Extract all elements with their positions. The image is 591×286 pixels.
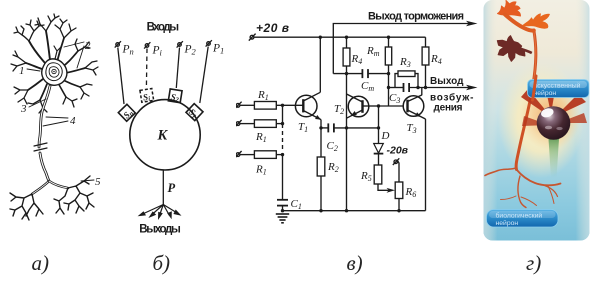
caption b) xyxy=(153,251,171,276)
svg-text:C3: C3 xyxy=(389,92,400,105)
wire -20v to R6 xyxy=(398,161,400,183)
terminal Pn xyxy=(115,41,121,47)
wire input P2 xyxy=(176,48,179,89)
wire input 3 xyxy=(240,154,255,156)
arrowhead wiper into R6 xyxy=(387,188,396,193)
svg-text:R2: R2 xyxy=(327,161,339,174)
svg-text:Pi: Pi xyxy=(152,45,163,58)
neuron dendrite branch right-up (pointed by 2) xyxy=(62,51,78,67)
input terminal 2 xyxy=(235,120,242,127)
wire output stem xyxy=(162,170,164,205)
transistor T3 xyxy=(403,95,425,119)
wire C1 to ground rail xyxy=(282,206,284,211)
wire input 2 xyxy=(240,123,255,125)
wire R4-left to bottom rail xyxy=(346,66,348,211)
wire C3 to output node xyxy=(409,87,425,89)
wire R2 branch xyxy=(320,128,322,157)
svg-text:3: 3 xyxy=(20,103,27,115)
transistor T2 xyxy=(347,94,379,118)
node R4-left Cm junction xyxy=(345,72,348,75)
label artificial neuron xyxy=(528,80,590,98)
output arrow fan xyxy=(138,205,182,221)
capacitor C3 xyxy=(404,83,410,92)
wire T3 collector xyxy=(421,88,423,96)
maroon connection to stem xyxy=(518,48,532,53)
node Rm on rail xyxy=(387,36,390,39)
wire Cm line xyxy=(333,73,362,75)
capacitor Cm xyxy=(362,69,368,78)
node R2 rail xyxy=(319,209,322,212)
sphere highlight xyxy=(540,107,555,119)
svg-text:T1: T1 xyxy=(298,121,308,134)
maroon star leaf xyxy=(497,36,524,61)
red rays behind sphere xyxy=(521,84,587,126)
svg-text:Выходы: Выходы xyxy=(139,224,181,236)
terminal P1 xyxy=(206,40,212,46)
wire T2 base to T3 base xyxy=(379,105,404,107)
wire R1 top to node xyxy=(276,104,283,106)
axon break marks xyxy=(34,143,47,151)
caption a) xyxy=(32,251,50,276)
resistor R4 right xyxy=(422,47,429,65)
box Si (dashed) xyxy=(140,89,154,104)
svg-text:Выход торможения: Выход торможения xyxy=(368,11,464,23)
sphere lower reflections xyxy=(545,126,552,130)
summing circle K xyxy=(130,100,200,170)
pointer lines for 4 xyxy=(43,117,68,126)
node R6 rail xyxy=(397,209,400,212)
stem segment crossing the label xyxy=(533,76,537,100)
wire Rm leads xyxy=(388,37,390,47)
svg-text:P: P xyxy=(168,181,176,195)
neuron dendrite branch up-right xyxy=(57,38,64,62)
resistor R6 xyxy=(395,182,403,199)
node T2 base / diode top xyxy=(377,104,380,107)
svg-text:Входы: Входы xyxy=(147,22,180,34)
node C3 wire left xyxy=(387,86,390,89)
axon terminal fork xyxy=(32,181,49,194)
neuron dendrite branch down-left xyxy=(40,84,47,100)
node rail x346 xyxy=(345,209,348,212)
axon lower part (double line) xyxy=(40,153,49,181)
node input 3 junction xyxy=(281,153,284,156)
arrowhead excitation output xyxy=(466,85,478,91)
orange bird shape xyxy=(523,14,550,29)
label biological neuron xyxy=(487,210,559,228)
neuron soma inner scribbles xyxy=(46,63,62,81)
artificial neuron sphere xyxy=(537,106,571,140)
capacitor C2 xyxy=(328,123,334,132)
terminal P2 xyxy=(177,41,183,47)
ground xyxy=(276,214,289,223)
box S1 xyxy=(185,104,203,122)
neuron dendrite branch left xyxy=(26,63,42,69)
neuron dendrite branch right-down xyxy=(63,80,80,87)
wire input 1 xyxy=(240,104,255,106)
wire R4 right leads xyxy=(425,37,427,47)
svg-text:C2: C2 xyxy=(327,140,338,153)
input terminal 3 xyxy=(235,151,242,158)
warm glow around sphere xyxy=(498,62,584,178)
wire left long vertical R4 branch xyxy=(346,37,348,48)
transistor T1 xyxy=(295,92,321,119)
resistor R1 (middle) xyxy=(254,120,276,128)
resistor R1 (bottom) xyxy=(254,151,276,159)
svg-text:K: K xyxy=(157,128,169,144)
neuron dendrite branch right xyxy=(65,68,85,73)
wire R5 to R6 wiper arrow xyxy=(378,184,389,190)
node input 1 junction xyxy=(281,104,284,107)
axon hillock and axon (double line) xyxy=(39,86,50,147)
caption g) xyxy=(526,251,541,276)
svg-text:1: 1 xyxy=(19,65,25,77)
wire input bus to C1 xyxy=(282,155,284,200)
box S2 xyxy=(168,89,182,104)
wire +20v rail xyxy=(255,36,426,38)
terminal +20v input xyxy=(249,34,256,41)
wire diode to R5 xyxy=(378,154,380,165)
wire C3 line xyxy=(389,87,404,89)
wire R1 bottom to node xyxy=(276,154,282,156)
svg-text:P1: P1 xyxy=(212,43,224,56)
pointer lines for 2 xyxy=(64,42,84,68)
svg-text:C1: C1 xyxy=(291,198,302,211)
svg-text:+20 в: +20 в xyxy=(256,21,289,35)
neuron nucleus xyxy=(52,69,56,73)
node ground rail left xyxy=(281,209,284,212)
wire R6 to rail xyxy=(398,199,400,211)
svg-text:5: 5 xyxy=(95,176,101,188)
terminal arborization right xyxy=(54,176,94,214)
resistor R2 xyxy=(317,157,325,176)
svg-text:P2: P2 xyxy=(184,44,197,57)
wire C2 to diode node xyxy=(334,127,379,129)
wire T1 emitter down xyxy=(320,120,322,128)
resistor R1 (top) xyxy=(254,102,276,110)
neuron soma outline xyxy=(42,59,67,85)
svg-text:R1: R1 xyxy=(255,131,267,144)
svg-text:R6: R6 xyxy=(405,186,417,199)
svg-text:дения: дения xyxy=(434,103,463,114)
svg-text:искусственный: искусственный xyxy=(534,82,581,90)
node input 2 junction xyxy=(281,122,284,125)
svg-text:R4: R4 xyxy=(430,53,442,66)
wire to C2 xyxy=(321,127,328,129)
pointer line for 3 xyxy=(29,99,46,107)
svg-text:Cm: Cm xyxy=(361,80,374,93)
wire inhibition output line xyxy=(333,24,468,74)
svg-text:D: D xyxy=(381,130,390,142)
svg-text:нейрон: нейрон xyxy=(534,89,557,97)
svg-text:Rm: Rm xyxy=(366,45,380,58)
node C2 wire at diode xyxy=(377,126,380,129)
pointer line for 1 xyxy=(27,69,40,71)
wire T3 emitter to rail xyxy=(425,119,427,211)
resistor R5 xyxy=(374,165,382,184)
wire input Pi (dashed) xyxy=(145,49,148,88)
svg-text:4: 4 xyxy=(70,115,76,127)
svg-text:R1: R1 xyxy=(257,89,269,102)
resistor R4 left xyxy=(343,48,350,66)
svg-text:R3: R3 xyxy=(399,56,411,69)
resistor R3 parallel loop xyxy=(395,74,398,88)
panel background xyxy=(484,0,590,241)
svg-text:R4: R4 xyxy=(351,53,363,66)
svg-text:T3: T3 xyxy=(407,122,417,135)
green ray under sphere xyxy=(548,131,560,178)
orange apical flame shape xyxy=(498,1,521,17)
node C2 wire crossing x346 xyxy=(345,126,348,129)
wire input Pn xyxy=(118,48,124,105)
wire Cm to Rm node xyxy=(368,73,389,75)
svg-text:Выход: Выход xyxy=(430,76,464,87)
wire R1 middle to node xyxy=(276,123,282,125)
wire R2 to rail xyxy=(320,176,322,211)
terminal -20v xyxy=(393,158,400,165)
svg-text:биологический: биологический xyxy=(496,212,543,220)
svg-text:T2: T2 xyxy=(334,103,344,116)
neuron dendrite branch up-left xyxy=(29,41,45,63)
node output excitation xyxy=(424,86,427,89)
svg-text:R1: R1 xyxy=(255,164,267,177)
wire T1 base xyxy=(283,104,304,106)
neuron lower branches xyxy=(485,168,561,208)
svg-text:-20в: -20в xyxy=(387,145,409,157)
small connector dendrite xyxy=(54,46,61,59)
svg-text:Pn: Pn xyxy=(122,44,134,57)
node Rm bottom on Cm wire xyxy=(387,72,390,75)
capacitor C1 xyxy=(277,200,288,206)
wire T1 collector to rail xyxy=(319,37,321,92)
diode D xyxy=(374,144,384,154)
neuron dendrite branch down-right xyxy=(58,83,66,97)
wire bottom rail xyxy=(283,210,426,212)
pointer line for 5 xyxy=(81,180,94,181)
terminal Pi xyxy=(144,42,150,48)
wire input P1 xyxy=(200,47,208,104)
svg-text:нейрон: нейрон xyxy=(496,219,519,227)
svg-text:R5: R5 xyxy=(360,170,372,183)
arrowhead inhibition output xyxy=(466,21,478,27)
flame-to-stem sweep xyxy=(505,15,534,31)
biological neuron stem xyxy=(516,30,536,170)
wire excitation output arrow xyxy=(426,87,469,89)
terminal arborization left xyxy=(10,193,43,220)
node R3 right xyxy=(416,86,419,89)
box Sn xyxy=(118,104,136,122)
wire input bus solid top xyxy=(282,105,284,128)
input terminal 1 xyxy=(235,102,242,109)
node R4-left on rail xyxy=(345,36,348,39)
wire input bus dashed (more inputs) xyxy=(282,131,284,152)
node T1 collector on rail xyxy=(319,36,322,39)
resistor Rm xyxy=(385,47,391,65)
caption v) xyxy=(347,251,363,276)
svg-text:2: 2 xyxy=(85,40,91,52)
neuron dendrite branch left-down xyxy=(28,79,43,90)
node T1 emitter / C2 xyxy=(319,126,322,129)
wire diode branch xyxy=(378,106,380,144)
neuron dendrite branch up xyxy=(46,31,50,60)
